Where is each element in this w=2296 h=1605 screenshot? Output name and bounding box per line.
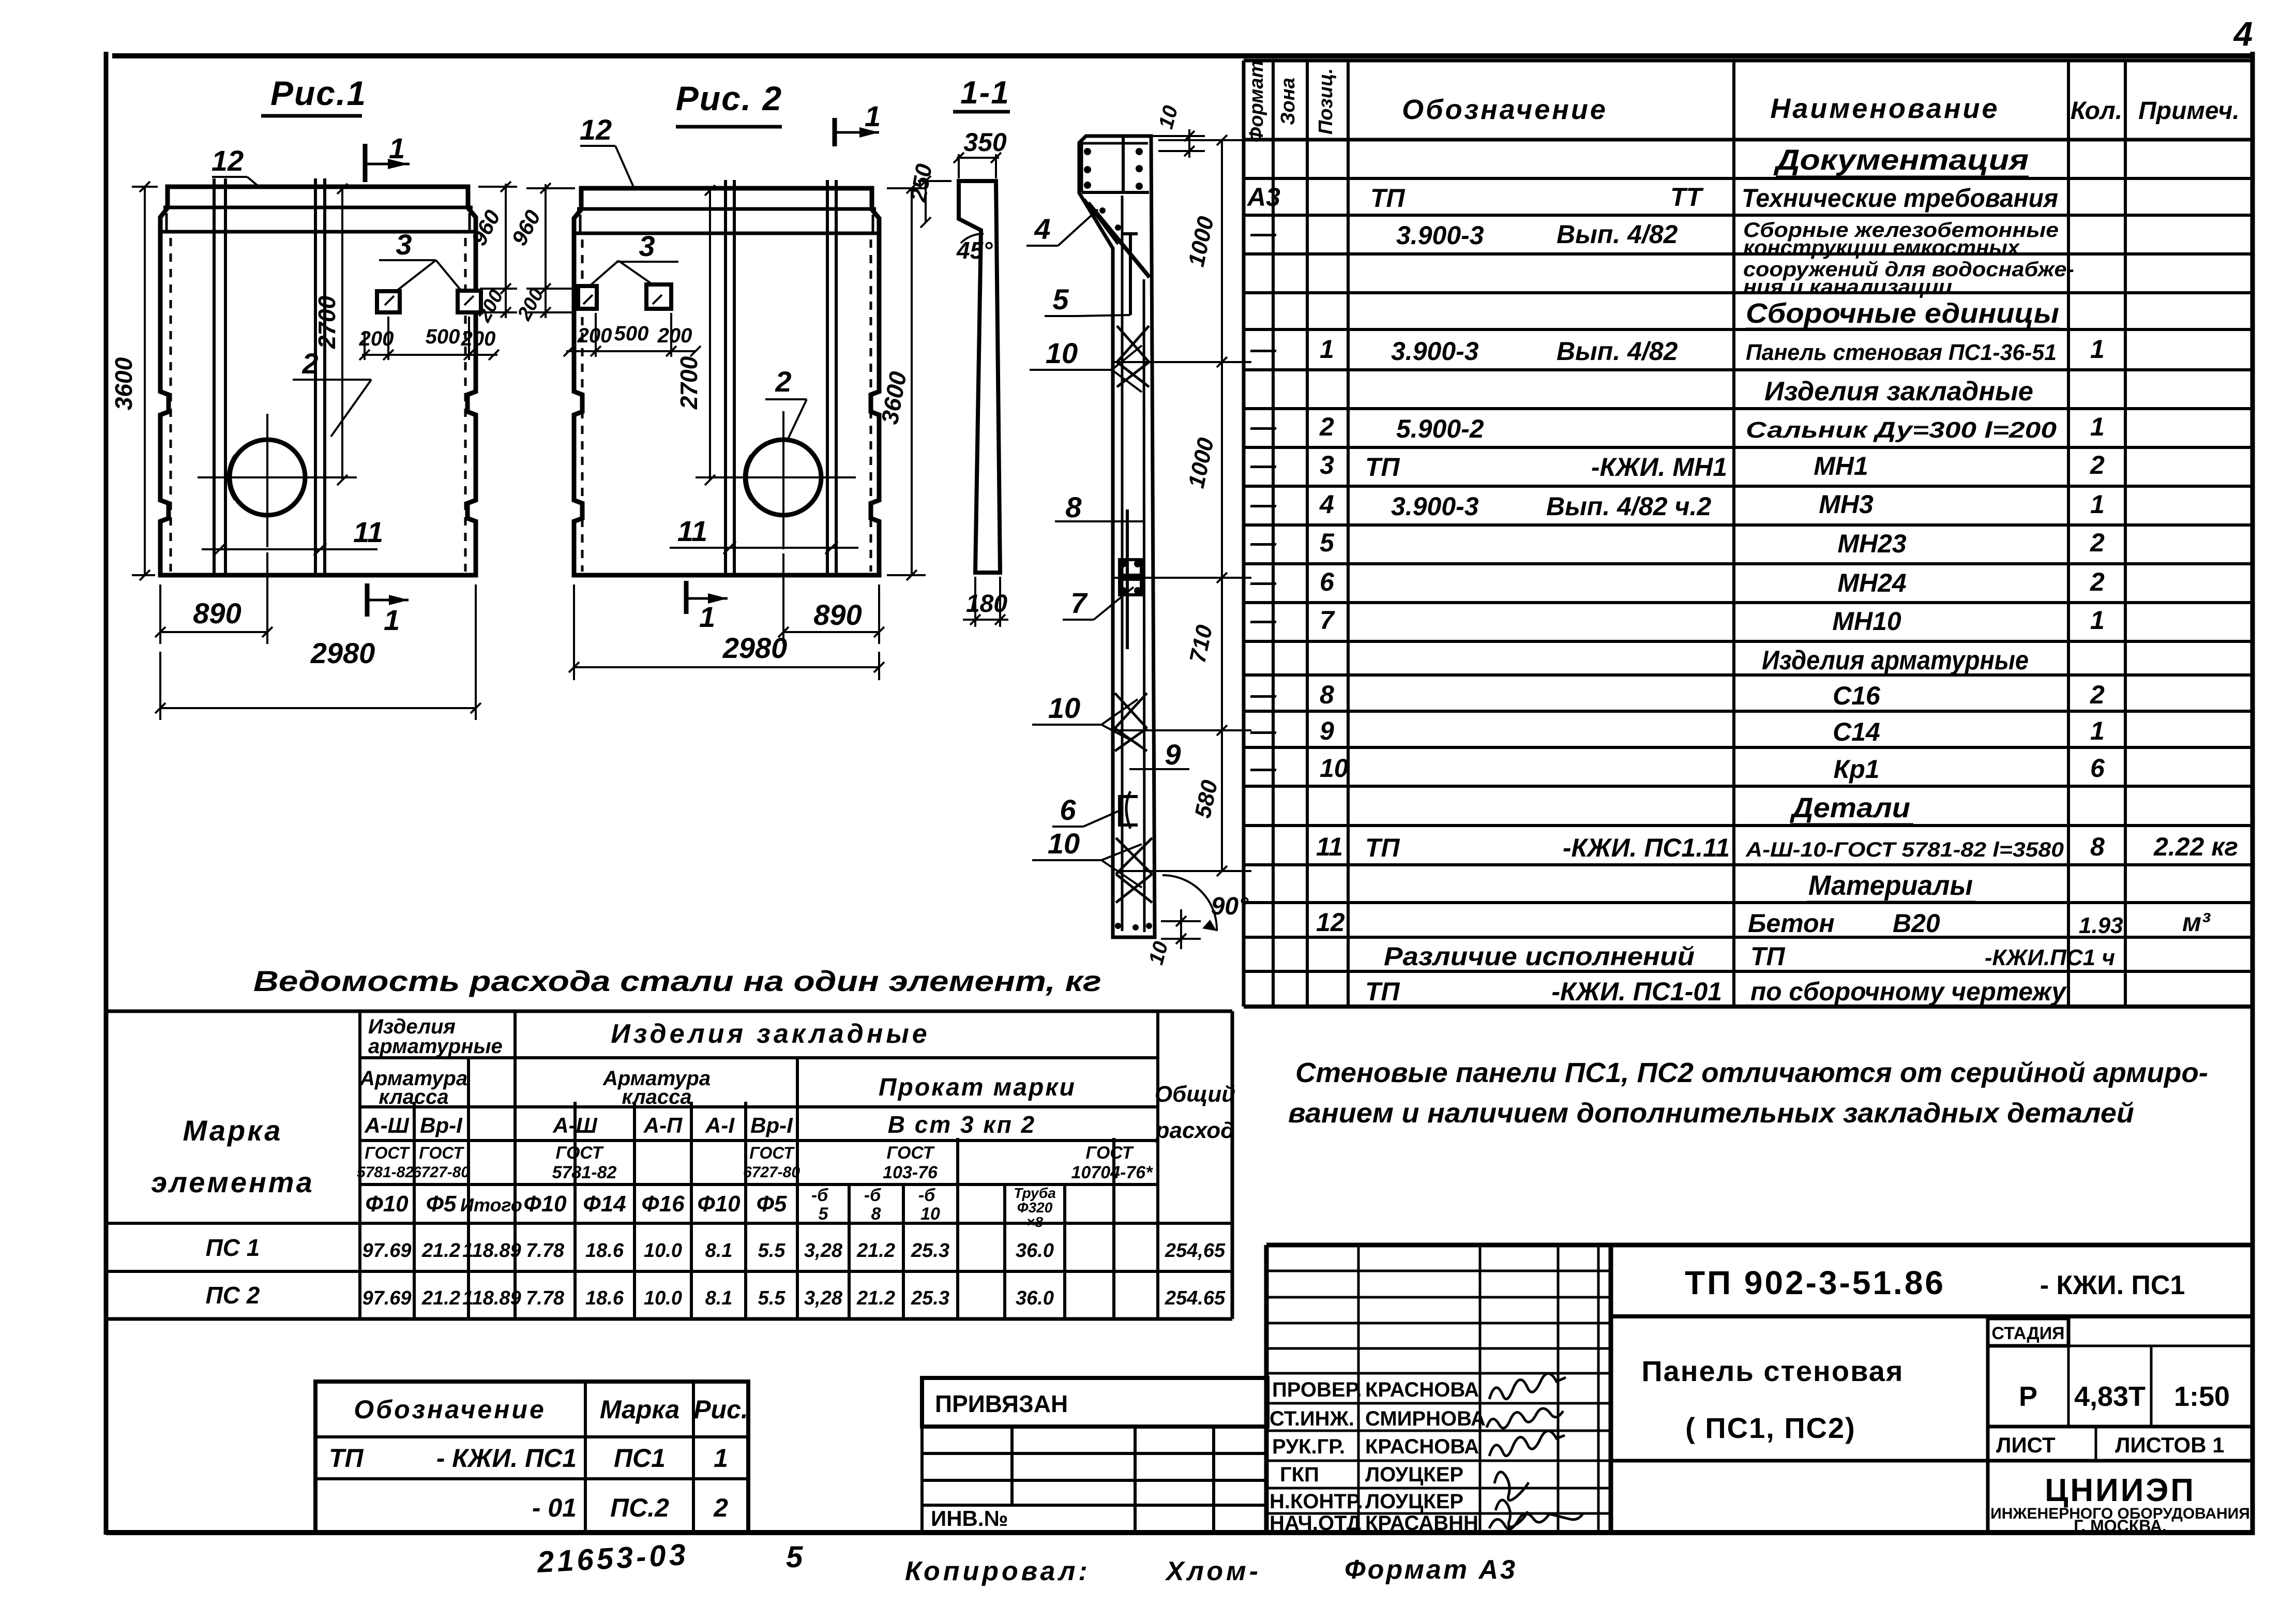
svg-text:Вр-I: Вр-I <box>750 1113 793 1137</box>
section 1-1 title <box>953 75 1010 112</box>
svg-text:10704-76*: 10704-76* <box>1071 1163 1154 1182</box>
svg-text:1: 1 <box>865 100 881 132</box>
svg-text:710: 710 <box>1185 622 1217 665</box>
svg-text:6727-80: 6727-80 <box>743 1164 800 1181</box>
svg-text:8: 8 <box>1065 491 1082 523</box>
svg-text:ПС 2: ПС 2 <box>206 1282 260 1309</box>
svg-text:1: 1 <box>2090 716 2105 745</box>
svg-text:10.0: 10.0 <box>644 1240 682 1262</box>
fig1 opening circle item 2 <box>198 414 357 547</box>
fig1 dims 200 500 200 <box>359 317 499 360</box>
rebar column inner lines <box>1082 137 1149 932</box>
svg-text:2700: 2700 <box>313 295 340 349</box>
svg-text:—: — <box>1250 716 1277 745</box>
fig2 cap bottom line <box>574 232 879 235</box>
svg-text:200: 200 <box>577 324 612 347</box>
svg-text:ЛОУЦКЕР: ЛОУЦКЕР <box>1365 1463 1463 1486</box>
section 1-1 angle 45 <box>956 234 993 264</box>
rebar label 6 <box>1052 793 1122 827</box>
svg-text:Рис. 2: Рис. 2 <box>676 79 782 117</box>
svg-text:Зона: Зона <box>1277 78 1299 125</box>
svg-text:3.900-3: 3.900-3 <box>1391 492 1479 521</box>
rebar dots top flange <box>1084 148 1143 231</box>
svg-text:Общий: Общий <box>1155 1082 1235 1107</box>
svg-text:25.3: 25.3 <box>911 1240 949 1262</box>
fig2 opening circle item 2 <box>696 411 856 549</box>
svg-text:4: 4 <box>1319 490 1334 519</box>
svg-text:—: — <box>1250 528 1277 557</box>
svg-text:5.5: 5.5 <box>758 1240 786 1262</box>
svg-text:ПРОВЕР.: ПРОВЕР. <box>1272 1378 1362 1401</box>
svg-text:Ф10: Ф10 <box>523 1191 567 1217</box>
svg-text:СТАДИЯ: СТАДИЯ <box>1991 1324 2064 1343</box>
svg-text:Формат: Формат <box>1246 61 1267 143</box>
svg-text:8: 8 <box>1320 680 1334 709</box>
svg-text:3: 3 <box>639 230 655 262</box>
fig1 label 12 leader <box>212 144 260 187</box>
svg-text:А-Ш: А-Ш <box>552 1113 597 1137</box>
svg-text:Панель стеновая: Панель стеновая <box>1641 1355 1904 1387</box>
svg-text:СМИРНОВА: СМИРНОВА <box>1365 1407 1486 1430</box>
svg-text:8.1: 8.1 <box>705 1287 733 1309</box>
svg-text:Ф320: Ф320 <box>1017 1199 1053 1216</box>
svg-text:2: 2 <box>775 365 791 398</box>
svg-text:арматурные: арматурные <box>368 1035 503 1058</box>
svg-text:А-Ш: А-Ш <box>364 1113 409 1137</box>
rebar item 8 bar <box>1126 509 1129 649</box>
svg-text:250: 250 <box>905 162 937 204</box>
svg-text:-б: -б <box>918 1186 935 1205</box>
svg-text:—: — <box>1250 754 1277 783</box>
svg-text:1.93: 1.93 <box>2079 913 2123 938</box>
svg-text:КРАСАВНН: КРАСАВНН <box>1365 1512 1478 1535</box>
svg-text:Изделия закладные: Изделия закладные <box>1764 377 2033 407</box>
svg-text:МН1: МН1 <box>1814 452 1868 481</box>
svg-text:6727-80: 6727-80 <box>413 1164 470 1181</box>
rebar 90 deg arc <box>1162 875 1249 931</box>
svg-text:200: 200 <box>657 324 692 347</box>
svg-text:500: 500 <box>614 322 649 345</box>
svg-text:Прокат марки: Прокат марки <box>879 1074 1076 1101</box>
fig1 label 2 leader <box>293 347 371 437</box>
svg-text:—: — <box>1250 219 1277 248</box>
svg-text:200: 200 <box>461 327 496 350</box>
svg-text:960: 960 <box>507 206 545 249</box>
svg-text:Сборочные единицы: Сборочные единицы <box>1746 298 2059 329</box>
section 1-1 dim 180 <box>963 577 1008 627</box>
spec table header <box>1246 61 2240 143</box>
svg-text:1000: 1000 <box>1184 436 1219 490</box>
svg-text:580: 580 <box>1190 777 1222 820</box>
svg-text:4: 4 <box>1034 213 1050 245</box>
svg-text:ТП: ТП <box>1750 942 1786 971</box>
svg-text:9: 9 <box>1320 716 1334 745</box>
svg-text:Примеч.: Примеч. <box>2138 97 2240 125</box>
svg-text:21.2: 21.2 <box>856 1287 895 1309</box>
svg-text:10: 10 <box>920 1204 940 1224</box>
svg-text:118.89: 118.89 <box>462 1240 521 1262</box>
title block texts <box>1270 1378 1486 1535</box>
svg-text:2: 2 <box>2090 528 2105 557</box>
svg-text:2: 2 <box>1319 412 1334 441</box>
fig2 label 12 leader <box>580 113 635 190</box>
svg-text:-б: -б <box>811 1186 828 1205</box>
svg-text:1: 1 <box>384 604 400 636</box>
svg-text:расход: расход <box>1155 1118 1235 1143</box>
fig1 dim 3600 <box>110 182 158 580</box>
svg-text:ГОСТ: ГОСТ <box>419 1144 464 1162</box>
svg-text:ТТ: ТТ <box>1670 183 1704 212</box>
rebar cross ties middle (Kp1) <box>1115 693 1147 751</box>
svg-text:Р: Р <box>2019 1381 2037 1412</box>
svg-text:-КЖИ.ПС1 ч: -КЖИ.ПС1 ч <box>1985 945 2115 970</box>
spec table rows text <box>1246 143 2238 1006</box>
svg-text:3.900-3: 3.900-3 <box>1391 337 1479 366</box>
svg-text:ЦНИИЭП: ЦНИИЭП <box>2045 1473 2196 1508</box>
svg-text:1: 1 <box>714 1444 728 1473</box>
svg-text:6: 6 <box>2090 754 2105 783</box>
fig2 section mark 1 bottom <box>686 581 728 633</box>
svg-text:—: — <box>1250 606 1277 635</box>
rebar item 5 bar <box>1123 232 1138 315</box>
rebar item 6 bracket <box>1120 791 1138 829</box>
svg-text:3,28: 3,28 <box>804 1287 843 1309</box>
title block grid <box>1266 1245 2253 1533</box>
svg-text:500: 500 <box>426 325 460 348</box>
svg-text:12: 12 <box>212 144 244 177</box>
rebar right dim chain <box>1113 135 1251 876</box>
svg-text:Рис.1: Рис.1 <box>270 74 367 112</box>
svg-text:Сальник Ду=300 l=200: Сальник Ду=300 l=200 <box>1746 417 2057 443</box>
rebar label 5 <box>1045 283 1130 316</box>
svg-text:890: 890 <box>813 598 862 631</box>
svg-text:СТ.ИНЖ.: СТ.ИНЖ. <box>1270 1407 1354 1430</box>
svg-text:Формат А3: Формат А3 <box>1345 1555 1517 1585</box>
svg-text:11: 11 <box>1316 832 1343 861</box>
rebar item 4 diagonal bar <box>1088 203 1150 277</box>
svg-text:5.5: 5.5 <box>758 1287 786 1309</box>
svg-text:ТП: ТП <box>1370 184 1406 213</box>
svg-text:5: 5 <box>1320 528 1335 557</box>
rebar item 7 plates <box>1120 560 1141 595</box>
svg-text:12: 12 <box>580 113 612 146</box>
fig2 dim 2700 <box>675 185 715 485</box>
svg-text:1: 1 <box>2090 490 2105 519</box>
rebar dim 10 top <box>1151 103 1205 158</box>
svg-text:ТП: ТП <box>1365 453 1400 482</box>
svg-text:200: 200 <box>359 327 394 350</box>
fig1 dashed edge lines <box>171 238 465 572</box>
fig2 dim 3600 <box>876 183 926 580</box>
svg-text:Вып. 4/82: Вып. 4/82 <box>1557 220 1678 249</box>
svg-text:А-П: А-П <box>643 1113 683 1137</box>
svg-text:Ведомость расхода стали на: Ведомость расхода стали на один элемент,… <box>253 965 1101 997</box>
svg-text:21653-03: 21653-03 <box>536 1538 689 1579</box>
svg-text:97.69: 97.69 <box>362 1240 411 1262</box>
svg-text:Копировал:: Копировал: <box>905 1556 1091 1586</box>
svg-text:Изделия арматурные: Изделия арматурные <box>1762 646 2029 676</box>
svg-text:элемента: элемента <box>151 1166 314 1198</box>
svg-text:Итого: Итого <box>460 1194 522 1216</box>
svg-text:ГОСТ: ГОСТ <box>887 1143 935 1163</box>
svg-text:2: 2 <box>301 347 318 380</box>
svg-text:1: 1 <box>699 601 715 633</box>
svg-text:конструкции емкостных: конструкции емкостных <box>1743 236 2020 259</box>
svg-text:2700: 2700 <box>675 356 702 410</box>
svg-text:-б: -б <box>864 1186 881 1205</box>
svg-text:КРАСНОВА: КРАСНОВА <box>1365 1435 1479 1458</box>
svg-text:2: 2 <box>2090 567 2105 596</box>
svg-text:5: 5 <box>786 1540 803 1574</box>
svg-text:по сборочному чертежу: по сборочному чертежу <box>1750 977 2067 1006</box>
rebar cross ties top (Kp1) <box>1117 326 1149 387</box>
svg-text:2.22 кг: 2.22 кг <box>2153 832 2238 861</box>
svg-text:Кр1: Кр1 <box>1833 755 1879 784</box>
svg-text:—: — <box>1250 490 1277 519</box>
fig1 dim 2700 <box>313 184 348 485</box>
svg-text:м³: м³ <box>2182 908 2211 937</box>
svg-text:12: 12 <box>1316 908 1345 937</box>
svg-text:10.0: 10.0 <box>644 1287 682 1309</box>
svg-text:—: — <box>1250 412 1277 441</box>
svg-text:6: 6 <box>1060 793 1076 826</box>
svg-text:ПС 1: ПС 1 <box>206 1234 260 1261</box>
svg-text:Ф5: Ф5 <box>757 1191 787 1217</box>
svg-text:Бетон: Бетон <box>1748 909 1835 938</box>
svg-text:3600: 3600 <box>110 357 137 410</box>
svg-text:Обозначение: Обозначение <box>1402 94 1608 125</box>
svg-text:ПС1: ПС1 <box>614 1444 666 1473</box>
svg-text:Вып. 4/82: Вып. 4/82 <box>1557 337 1678 366</box>
svg-text:7.78: 7.78 <box>526 1287 565 1309</box>
svg-text:Ф14: Ф14 <box>583 1191 626 1217</box>
svg-text:НАЧ.ОТД: НАЧ.ОТД <box>1270 1512 1361 1535</box>
svg-text:ТП: ТП <box>1365 977 1400 1006</box>
svg-text:ПС.2: ПС.2 <box>610 1493 669 1522</box>
fig2 embedded plates item 3 <box>578 284 671 309</box>
svg-text:5: 5 <box>819 1204 829 1224</box>
svg-text:21.2: 21.2 <box>421 1240 460 1262</box>
svg-text:ЛИСТОВ 1: ЛИСТОВ 1 <box>2115 1433 2225 1457</box>
fig2 label 2 leader <box>765 365 807 439</box>
svg-text:ГОСТ: ГОСТ <box>365 1144 410 1162</box>
svg-text:Стеновые панели ПС1, ПС2 от: Стеновые панели ПС1, ПС2 отличаются от с… <box>1295 1057 2208 1088</box>
svg-text:ЛОУЦКЕР: ЛОУЦКЕР <box>1365 1490 1463 1513</box>
svg-text:103-76: 103-76 <box>883 1163 938 1182</box>
fig2 dashed edge lines <box>582 239 871 572</box>
svg-text:ванием и наличием дополнитель: ванием и наличием дополнительных закладн… <box>1288 1098 2134 1129</box>
svg-text:ПРИВЯЗАН: ПРИВЯЗАН <box>935 1390 1068 1417</box>
svg-text:—: — <box>1250 451 1277 479</box>
svg-text:4,83Т: 4,83Т <box>2074 1381 2146 1412</box>
svg-text:1000: 1000 <box>1184 214 1219 269</box>
svg-text:1:50: 1:50 <box>2174 1381 2230 1412</box>
svg-text:КРАСНОВА: КРАСНОВА <box>1365 1378 1479 1401</box>
svg-text:5781-82: 5781-82 <box>552 1163 617 1182</box>
note text <box>1288 1057 2208 1129</box>
fig1 embedded plates item 3 <box>377 291 481 312</box>
fig1 panel outline <box>160 187 476 575</box>
svg-text:С14: С14 <box>1833 717 1880 746</box>
svg-text:А-Ш-10-ГОСТ 5781-82 l=3580: А-Ш-10-ГОСТ 5781-82 l=3580 <box>1745 838 2064 861</box>
fig1 section mark 1 top <box>365 132 410 182</box>
svg-text:1: 1 <box>389 132 405 164</box>
svg-text:10: 10 <box>1048 827 1080 860</box>
small reference table <box>315 1382 748 1533</box>
svg-text:5: 5 <box>1052 283 1069 316</box>
fig2 section mark 1 top <box>835 100 881 146</box>
section 1-1 dim 250 <box>905 162 951 228</box>
fig1 label 11 line <box>202 516 383 556</box>
svg-text:Г. МОСКВА.: Г. МОСКВА. <box>2074 1517 2167 1535</box>
svg-text:254.65: 254.65 <box>1165 1287 1226 1309</box>
svg-text:ГОСТ: ГОСТ <box>749 1144 795 1162</box>
svg-text:1: 1 <box>2090 606 2105 635</box>
svg-text:МН3: МН3 <box>1819 490 1874 519</box>
svg-text:ГОСТ: ГОСТ <box>556 1143 605 1163</box>
fig2 panel outline <box>574 188 879 575</box>
svg-text:Материалы: Материалы <box>1808 870 1973 901</box>
svg-text:118.89: 118.89 <box>462 1287 521 1309</box>
svg-text:Позиц.: Позиц. <box>1315 68 1337 134</box>
svg-text:6: 6 <box>1320 567 1335 596</box>
svg-text:97.69: 97.69 <box>362 1287 411 1309</box>
signatures <box>1487 1373 1583 1529</box>
svg-text:10: 10 <box>1144 939 1172 967</box>
fig1 dim 2980 <box>155 584 481 720</box>
svg-text:254,65: 254,65 <box>1165 1240 1226 1262</box>
svg-text:36.0: 36.0 <box>1016 1287 1054 1309</box>
svg-text:×8: ×8 <box>1026 1214 1043 1230</box>
svg-text:—: — <box>1250 567 1277 596</box>
svg-text:10: 10 <box>1046 337 1078 369</box>
svg-text:11: 11 <box>353 516 383 548</box>
svg-text:ТП 902-3-51.86: ТП 902-3-51.86 <box>1685 1264 1945 1301</box>
svg-text:В20: В20 <box>1893 909 1940 938</box>
svg-text:Ф16: Ф16 <box>641 1191 685 1217</box>
svg-text:класса: класса <box>379 1086 448 1108</box>
section 1-1 body <box>959 181 1000 573</box>
svg-text:Обозначение: Обозначение <box>354 1395 546 1424</box>
svg-text:36.0: 36.0 <box>1016 1240 1054 1262</box>
svg-text:ЛИСТ: ЛИСТ <box>1996 1433 2056 1457</box>
svg-text:1: 1 <box>2090 335 2105 364</box>
svg-text:МН10: МН10 <box>1832 607 1901 636</box>
fig2 dims 960 200 left <box>507 183 575 324</box>
rebar label 10 bottom <box>1032 827 1142 888</box>
svg-text:ния и канализации: ния и канализации <box>1743 276 1952 298</box>
svg-text:2: 2 <box>2090 680 2105 709</box>
svg-text:10: 10 <box>1048 692 1080 724</box>
svg-text:ГКП: ГКП <box>1280 1463 1319 1486</box>
svg-text:18.6: 18.6 <box>585 1287 624 1309</box>
svg-text:Документация: Документация <box>1773 143 2029 176</box>
svg-text:7: 7 <box>1070 587 1088 619</box>
fig2 label 11 line <box>670 515 858 554</box>
fig1 dim 890 <box>155 552 273 644</box>
spec table grid <box>1244 61 2253 1007</box>
svg-text:- КЖИ. ПС1: - КЖИ. ПС1 <box>436 1444 577 1473</box>
svg-text:- 01: - 01 <box>532 1493 577 1522</box>
svg-text:-КЖИ. ПС1.11: -КЖИ. ПС1.11 <box>1563 833 1730 862</box>
rebar bottom end dots <box>1115 923 1152 931</box>
svg-text:—: — <box>1250 335 1277 364</box>
svg-text:10: 10 <box>1154 103 1182 131</box>
svg-text:10: 10 <box>1320 754 1349 783</box>
rebar column outline <box>1079 136 1155 937</box>
svg-text:В ст 3 кп 2: В ст 3 кп 2 <box>888 1111 1036 1138</box>
fig2 dim 890 <box>778 553 884 644</box>
rebar label 10 middle <box>1032 692 1138 744</box>
svg-text:890: 890 <box>193 597 241 629</box>
svg-text:8: 8 <box>2090 832 2105 861</box>
svg-text:Технические требования: Технические требования <box>1742 184 2058 213</box>
svg-text:Труба: Труба <box>1014 1185 1056 1201</box>
svg-text:5.900-2: 5.900-2 <box>1396 414 1484 443</box>
svg-text:Марка: Марка <box>183 1114 283 1147</box>
svg-text:-КЖИ. ПС1-01: -КЖИ. ПС1-01 <box>1551 977 1722 1006</box>
svg-text:Ф10: Ф10 <box>697 1191 741 1217</box>
fig2 dim 2980 <box>569 584 884 680</box>
fig2 rebar lines <box>726 180 836 575</box>
svg-text:9: 9 <box>1165 738 1181 771</box>
svg-text:Панель стеновая ПС1-36-51: Панель стеновая ПС1-36-51 <box>1746 340 2057 365</box>
svg-text:Наименование: Наименование <box>1770 93 1999 124</box>
svg-text:180: 180 <box>966 590 1007 618</box>
svg-text:А-I: А-I <box>705 1113 735 1137</box>
svg-text:Хлом-: Хлом- <box>1165 1556 1261 1586</box>
fig2 title <box>676 79 782 127</box>
rebar label 4 <box>1026 209 1098 246</box>
svg-text:4: 4 <box>2233 14 2253 53</box>
svg-text:Ф5: Ф5 <box>426 1191 457 1217</box>
steel table grid <box>106 1011 1232 1319</box>
svg-text:Н.КОНТР.: Н.КОНТР. <box>1270 1490 1363 1513</box>
svg-text:3.900-3: 3.900-3 <box>1396 221 1484 250</box>
svg-text:25.3: 25.3 <box>911 1287 949 1309</box>
svg-text:21.2: 21.2 <box>856 1240 895 1262</box>
svg-text:8.1: 8.1 <box>705 1240 733 1262</box>
svg-text:2980: 2980 <box>722 632 788 664</box>
rebar label 10 top <box>1030 337 1142 392</box>
svg-text:1: 1 <box>1320 335 1334 364</box>
steel table texts <box>151 1015 1235 1309</box>
svg-text:3,28: 3,28 <box>804 1240 843 1262</box>
fig1 dims 960 200 right <box>466 182 517 326</box>
privyazan block <box>922 1378 1267 1533</box>
section 1-1 dim 350 <box>954 128 1007 178</box>
rebar cross ties bottom (Kp1) <box>1116 838 1152 903</box>
svg-text:Марка: Марка <box>600 1395 679 1424</box>
svg-text:Детали: Детали <box>1790 792 1910 823</box>
svg-text:8: 8 <box>871 1204 881 1224</box>
svg-text:ТП: ТП <box>1365 833 1400 862</box>
svg-text:2: 2 <box>2090 451 2105 479</box>
svg-text:7.78: 7.78 <box>526 1240 565 1262</box>
svg-text:МН23: МН23 <box>1837 529 1907 558</box>
svg-text:( ПС1, ПС2): ( ПС1, ПС2) <box>1685 1412 1856 1444</box>
svg-text:Изделия закладные: Изделия закладные <box>611 1019 930 1049</box>
svg-text:РУК.ГР.: РУК.ГР. <box>1272 1435 1345 1458</box>
svg-text:МН24: МН24 <box>1837 568 1906 597</box>
svg-text:1: 1 <box>2090 412 2105 441</box>
fig1 rebar lines <box>214 178 325 575</box>
svg-text:- КЖИ. ПС1: - КЖИ. ПС1 <box>2040 1270 2185 1300</box>
svg-text:5781-82: 5781-82 <box>357 1164 414 1181</box>
fig2 label 3 leader <box>590 230 678 286</box>
svg-text:3: 3 <box>396 228 412 261</box>
svg-text:2: 2 <box>713 1493 728 1522</box>
